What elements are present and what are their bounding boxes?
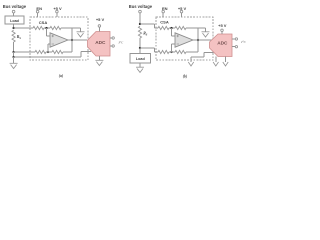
caption (b) — [183, 74, 188, 78]
node: bus voltage label (b) — [129, 4, 153, 9]
op-amp U3 (b) — [175, 33, 193, 47]
resistor R1 (a) — [33, 26, 44, 29]
ground GND-A3 below ADC (a) — [95, 56, 103, 66]
svg-text:Bus voltage: Bus voltage — [129, 4, 153, 9]
wire R6 to ground drop (b) — [186, 28, 206, 32]
wire node A2 down (a) — [13, 52, 15, 57]
wire node B2 tap (b) — [140, 48, 158, 52]
node B3 junction (b) — [170, 27, 172, 29]
node A5 junction (a) — [47, 51, 49, 53]
resistor R5 (b) — [158, 26, 169, 29]
wire node A3 to ground (a) — [13, 57, 15, 63]
node A1 junction (a) — [12, 27, 14, 29]
feedback wire vertical (b) — [197, 28, 199, 52]
terminal +5V ADC (a) — [96, 17, 105, 32]
op-amp U1 (a) — [50, 33, 68, 47]
wire R8 to feedback rise (b) — [186, 51, 198, 53]
wire bus to node B1 (b) — [139, 13, 141, 24]
wire node B3 to op-amp + (b) — [172, 28, 176, 36]
resistor R4 (a) — [52, 50, 63, 53]
wire node A1 to R1 (a) — [14, 27, 33, 29]
svg-text:I2C: I2C — [118, 40, 124, 44]
wire node A2 to R3 (a) — [14, 51, 35, 53]
wire load to ground (b) — [139, 63, 141, 67]
resistor R7 (b) — [158, 50, 169, 53]
svg-text:+5 V: +5 V — [96, 17, 105, 22]
wire node A5 to op-amp - (a) — [48, 44, 50, 52]
ground arrow GND-B4 below ADC (b) — [213, 57, 218, 67]
terminal: bus voltage (b) — [139, 10, 142, 13]
terminal: bus voltage (a) — [12, 10, 15, 13]
svg-text:(a): (a) — [59, 74, 64, 78]
wire R1 to node A4 (a) — [44, 27, 50, 29]
label I2C (b) — [240, 40, 246, 44]
svg-text:CSA: CSA — [160, 19, 169, 24]
load LOAD2 (b) — [130, 54, 151, 63]
ADC U2 (a) — [88, 32, 111, 57]
terminal +5V ADC (b) — [218, 23, 227, 34]
svg-text:+5 V: +5 V — [218, 23, 227, 28]
svg-text:ADC: ADC — [217, 40, 228, 45]
node: bus voltage label (a) — [3, 4, 27, 9]
ground arrow GND-B5 below ADC (b) — [223, 57, 228, 67]
node B2 junction (b) — [139, 47, 141, 49]
ground GND-B1 (b) — [136, 67, 144, 72]
node A2 junction (a) — [12, 51, 14, 53]
wire bottom rail to ADC low (a) — [14, 52, 91, 58]
wire op-amp output to ADC (a) — [68, 39, 87, 41]
terminal +5V CSA (b) — [178, 6, 187, 17]
feedback wire vertical (a) — [71, 28, 73, 52]
CSA box (a) — [30, 17, 88, 60]
node A4 junction (a) — [45, 27, 47, 29]
pin SDA (b) — [232, 38, 238, 40]
resistor R2 (a) — [50, 26, 61, 29]
svg-text:Load: Load — [10, 19, 20, 23]
svg-text:I2C: I2C — [240, 40, 246, 44]
svg-text:ADC: ADC — [95, 40, 106, 45]
svg-text:(b): (b) — [183, 74, 188, 78]
ground arrow GND-B3 (b) — [188, 62, 193, 66]
wire node B2 to load (b) — [139, 48, 141, 54]
terminal EN (a) — [36, 6, 42, 17]
ground GND-A2 (a) — [77, 32, 85, 37]
svg-text:Bus voltage: Bus voltage — [3, 4, 27, 9]
caption (a) — [59, 74, 64, 78]
wire R4 to feedback rise (a) — [63, 51, 72, 53]
wire node A4 to op-amp + (a) — [47, 28, 51, 36]
svg-text:Load: Load — [136, 57, 146, 61]
wire RS1 to node A2 (a) — [13, 42, 15, 52]
resistor R6 (b) — [175, 26, 186, 29]
wire node B1 tap (b) — [140, 24, 158, 28]
CSA box (b) — [156, 17, 213, 60]
pin SCL (b) — [232, 46, 238, 48]
ground GND-B2 (b) — [202, 32, 210, 37]
terminal EN (b) — [162, 6, 168, 17]
label I2C (a) — [118, 40, 124, 44]
resistor RS1 shunt (a) — [12, 30, 21, 42]
ADC U4 (b) — [210, 34, 233, 57]
node A6 output junction (a) — [71, 39, 73, 41]
wire R5 to node B3 (b) — [169, 27, 175, 29]
wire node A5 (a) — [46, 51, 52, 53]
svg-text:RS: RS — [17, 35, 22, 40]
resistor RS2 shunt (b) — [138, 26, 147, 38]
wire R2 to ground drop (a) — [61, 28, 81, 32]
node B5 output junction (b) — [197, 39, 199, 41]
node A3 junction (a) — [12, 56, 14, 58]
wire node B4 to op-amp - (b) — [172, 44, 176, 52]
pin SCL (a) — [110, 45, 114, 47]
wire bus to load (a) — [13, 13, 15, 16]
node B4 junction (b) — [170, 51, 172, 53]
resistor R8 (b) — [175, 50, 186, 53]
wire RS2 to node B2 (b) — [139, 38, 141, 48]
wire load to node A1 (a) — [13, 24, 15, 28]
load LOAD1 (a) — [5, 16, 24, 24]
ground GND-A1 (a) — [10, 63, 18, 68]
terminal +5V CSA (a) — [53, 6, 62, 17]
wire op-amp output to ADC (b) — [193, 39, 212, 41]
pin SDA (a) — [110, 37, 114, 39]
svg-text:RS: RS — [143, 32, 148, 37]
wire node B4 (b) — [169, 51, 175, 53]
wire ADC low rail (b) — [191, 53, 214, 63]
svg-text:CSA: CSA — [39, 20, 48, 25]
node B1 junction (b) — [139, 23, 141, 25]
resistor R3 (a) — [35, 50, 46, 53]
